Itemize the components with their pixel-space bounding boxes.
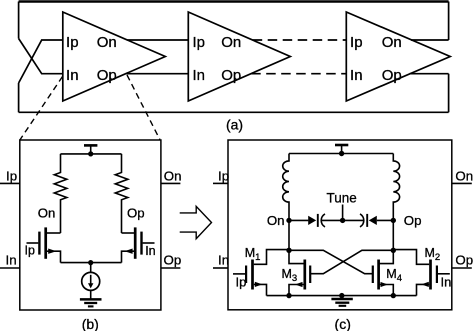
block arrow between (b) and (c) xyxy=(180,206,212,238)
svg-text:Op: Op xyxy=(97,67,117,84)
wire: A2 On dashed to A3 Ip xyxy=(253,39,347,41)
junction dot: M3 source on rail xyxy=(286,293,291,298)
ground (c) bar 3 xyxy=(339,305,347,307)
wire: M1 drain to On node xyxy=(254,250,289,265)
transistor left NMOS gate bar xyxy=(38,232,40,255)
box (c) outline xyxy=(228,140,452,310)
wire: A3 Op output to right edge xyxy=(410,73,449,75)
inductor L2 xyxy=(393,154,399,221)
transistor right NMOS gate wire xyxy=(143,242,155,244)
transistor right NMOS gate bar xyxy=(140,232,142,255)
dashed leader from A1 to detail box (b), right xyxy=(127,75,160,140)
wire: A1 On to A2 Ip xyxy=(127,39,188,41)
resistor R-right xyxy=(115,154,128,233)
arrowhead: M1 source xyxy=(255,282,263,287)
op-amp A2 xyxy=(188,12,290,101)
current source I1 arrow shaft xyxy=(90,275,92,284)
wire: A3 On output to right edge xyxy=(411,39,449,41)
wire: VDD stub (c) xyxy=(341,145,343,154)
transistor M1 gate bar xyxy=(245,266,247,284)
svg-text:In: In xyxy=(218,252,229,267)
svg-text:Op: Op xyxy=(221,67,241,84)
ground (b) bar 3 xyxy=(88,305,94,307)
svg-text:On: On xyxy=(455,168,473,183)
wire: VDD stub (b) xyxy=(90,145,92,154)
wire: Op rail down to M4 drain xyxy=(379,220,394,263)
wire: pin Ip of box (c) xyxy=(213,182,228,184)
transistor M2 channel bar xyxy=(429,260,432,290)
current source I1 stub top xyxy=(90,263,92,273)
svg-text:Ip: Ip xyxy=(192,34,205,51)
wire: cross-couple On node to M4 gate xyxy=(289,250,373,273)
varactor D2 cathode bar xyxy=(366,214,368,227)
wire: feedback top rail xyxy=(19,0,449,2)
ground (c) bar 2 xyxy=(335,302,349,304)
op-amp A1 xyxy=(63,12,166,101)
wire: crossing feedback to In of A1 xyxy=(19,39,63,74)
transistor M4 channel bar xyxy=(377,260,380,290)
wire: Tune node to varactor D2 xyxy=(343,219,364,221)
wire: On node to varactor D1 xyxy=(289,219,308,221)
svg-text:On: On xyxy=(267,213,285,228)
svg-text:(c): (c) xyxy=(335,316,351,331)
svg-text:In: In xyxy=(6,252,17,267)
op-amp A3 xyxy=(346,12,450,101)
svg-text:Op: Op xyxy=(404,213,422,228)
svg-text:Ip: Ip xyxy=(350,34,363,51)
wire: right NMOS drain xyxy=(122,232,135,234)
wire: right edge upper segment xyxy=(448,2,450,41)
wire: pin On of box (b) xyxy=(161,182,181,184)
wire: pin Op of box (c) xyxy=(452,267,472,269)
arrowhead: M4 source xyxy=(381,282,389,287)
svg-text:(b): (b) xyxy=(82,316,99,331)
junction dot: On node (c) xyxy=(286,218,291,223)
wire: pin On of box (c) xyxy=(452,182,472,184)
svg-text:Op: Op xyxy=(164,252,182,267)
wire: tail rail (b) xyxy=(61,262,122,264)
junction dot: ground node (c) xyxy=(339,293,344,298)
svg-text:In: In xyxy=(350,67,363,84)
junction dot: tail node (b) xyxy=(88,260,93,265)
wire: M2 source to bottom rail xyxy=(417,284,430,295)
wire: feedback bottom rail xyxy=(19,111,449,113)
svg-text:Ip: Ip xyxy=(236,274,247,289)
wire: A1 Op to A2 In xyxy=(126,73,189,75)
arrowhead: right NMOS source xyxy=(124,249,132,254)
junction dot: Op node (c) xyxy=(391,218,396,223)
wire: left edge upper segment xyxy=(18,2,20,39)
wire: M2 drain to Op node xyxy=(393,250,429,265)
svg-text:On: On xyxy=(221,34,241,51)
wire: On rail down to M3 drain xyxy=(289,220,305,263)
box (b) outline xyxy=(20,140,161,310)
transistor M1 channel bar xyxy=(251,260,254,290)
svg-text:Ip: Ip xyxy=(66,34,79,51)
junction dot: Op cross node xyxy=(391,248,396,253)
wire: pin In of box (b) xyxy=(0,267,20,269)
dashed leader from A1 to detail box (b), left xyxy=(20,77,62,140)
varactor D1 curved plate xyxy=(321,214,325,227)
wire: bottom rail (c) xyxy=(267,295,417,297)
transistor M1 gate wire xyxy=(233,273,245,275)
VDD supply bar (b) xyxy=(84,144,97,147)
svg-text:Tune: Tune xyxy=(326,191,356,206)
wire: varactor D1 to Tune node xyxy=(321,219,342,221)
junction dot: VDD rail (b) xyxy=(88,151,93,156)
current source I1 circle xyxy=(82,272,100,290)
transistor M3 channel bar xyxy=(303,260,306,290)
wire: crossing feedback to Ip of A1 xyxy=(19,40,63,83)
svg-text:On: On xyxy=(164,168,182,183)
junction dot: Tune node xyxy=(340,218,345,223)
junction dot: On cross node xyxy=(286,248,291,253)
wire: pin In of box (c) xyxy=(213,267,228,269)
transistor left NMOS gate wire xyxy=(27,242,39,244)
arrowhead: left NMOS source xyxy=(48,249,56,254)
wire: top rail (b) xyxy=(61,153,122,155)
svg-text:On: On xyxy=(38,205,56,220)
ground (b) bar 1 xyxy=(80,298,102,301)
wire: cross-couple Op node to M3 gate xyxy=(310,250,393,273)
wire: M1 source to bottom rail xyxy=(254,284,267,295)
current source I1 stub bottom xyxy=(90,290,92,299)
ground (c) bar 1 xyxy=(331,298,352,301)
wire: pin Op of box (b) xyxy=(161,267,181,269)
VDD supply bar (c) xyxy=(335,144,348,147)
wire: ground stub (c) xyxy=(341,296,343,299)
ground (b) bar 2 xyxy=(84,302,97,304)
arrowhead: M3 source xyxy=(295,282,303,287)
svg-text:In: In xyxy=(66,67,79,84)
wire: Tune stub xyxy=(342,205,344,221)
wire: A2 Op dashed to A3 In xyxy=(251,73,346,75)
wire: M4 source to bottom rail xyxy=(379,285,394,296)
resistor R-left xyxy=(54,154,67,233)
arrowhead: M2 source xyxy=(421,282,429,287)
wire: right edge lower segment xyxy=(448,74,450,113)
junction dot: M4 source on rail xyxy=(391,293,396,298)
transistor M2 gate wire xyxy=(438,273,450,275)
svg-text:Op: Op xyxy=(382,67,402,84)
wire: left edge lower segment xyxy=(18,83,20,112)
wire: left NMOS source to tail xyxy=(47,251,61,262)
svg-text:(a): (a) xyxy=(226,117,243,133)
svg-text:On: On xyxy=(382,34,402,51)
junction dot: VDD rail (c) xyxy=(339,151,344,156)
svg-text:In: In xyxy=(192,67,205,84)
transistor left NMOS channel bar xyxy=(44,227,47,258)
arrowhead: current source I1 xyxy=(88,283,93,288)
varactor D1 anode arrow xyxy=(308,216,316,225)
svg-text:In: In xyxy=(145,244,155,258)
svg-text:Ip: Ip xyxy=(218,168,229,183)
transistor M4 gate bar xyxy=(372,266,374,284)
wire: pin Ip of box (b) xyxy=(0,182,20,184)
svg-text:Op: Op xyxy=(127,205,145,220)
svg-text:Ip: Ip xyxy=(6,168,17,183)
svg-text:On: On xyxy=(97,34,117,51)
wire: varactor D2 to Op node xyxy=(377,219,394,221)
svg-text:Ip: Ip xyxy=(25,243,35,257)
varactor D2 anode arrow xyxy=(369,216,377,225)
varactor D1 cathode bar xyxy=(317,214,319,227)
svg-text:In: In xyxy=(441,275,452,290)
inductor L1 xyxy=(283,154,289,221)
wire: top rail (c) xyxy=(289,153,393,155)
wire: right NMOS source to tail xyxy=(122,251,135,262)
wire: left NMOS drain xyxy=(47,232,61,234)
wire: M3 source to bottom rail xyxy=(289,285,305,296)
svg-text:Op: Op xyxy=(455,252,473,267)
transistor M3 gate bar xyxy=(309,266,311,284)
transistor M2 gate bar xyxy=(436,266,438,284)
varactor D2 curved plate xyxy=(360,214,364,227)
transistor right NMOS channel bar xyxy=(134,227,137,258)
